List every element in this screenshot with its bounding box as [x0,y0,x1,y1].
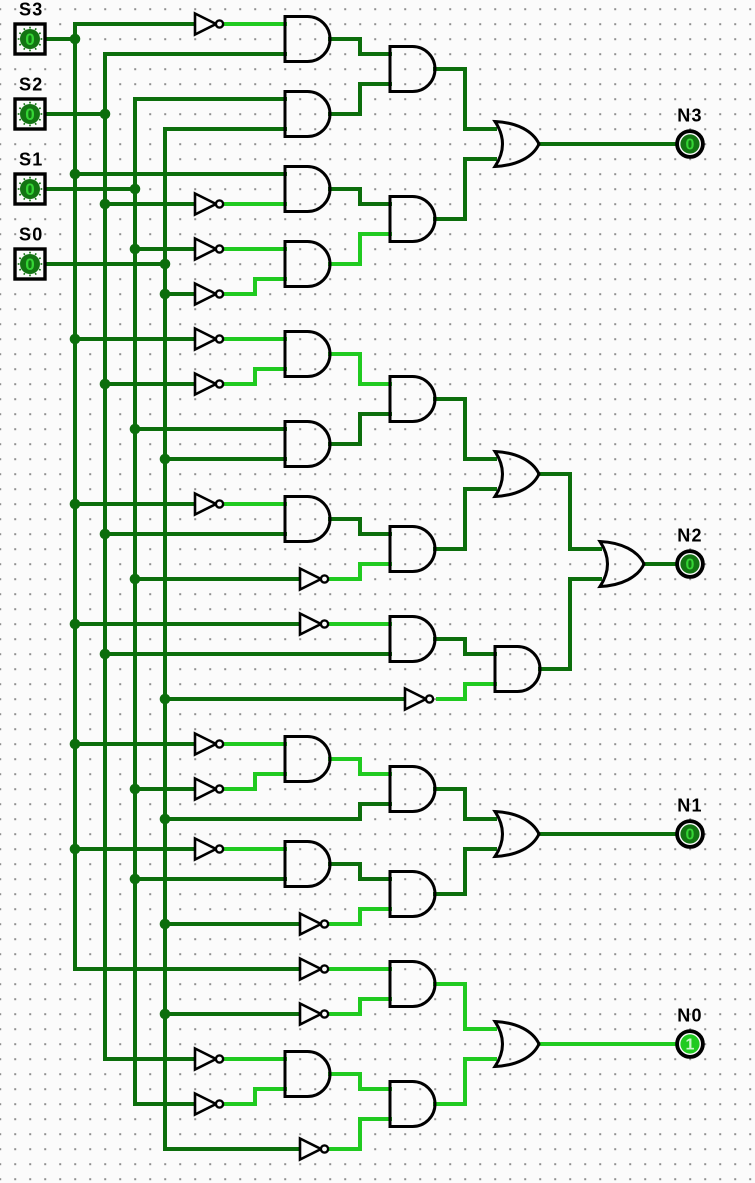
output pin N0 [677,1031,703,1057]
junction S0-r1014 [160,1009,171,1020]
svg-text:N2: N2 [677,526,702,546]
junction S0-pin [160,259,171,270]
wire O3 out to N2 [644,562,676,566]
wire A6 out [330,234,390,264]
junction S0-r294 [160,289,171,300]
AND gate A9 [285,422,330,467]
wire A8 out [435,399,495,459]
wire S3 branch row624 [75,622,300,626]
wire U9 out [330,622,390,626]
NOT gate U4 [195,284,223,305]
AND gate A7 [285,332,330,377]
AND gate A3 [390,47,435,92]
wire U5 out [225,337,285,341]
wire S1 branch row429 [135,427,285,431]
junction S0-r459 [160,454,171,465]
wire U14 out [330,909,390,924]
wire S0 branch row924 [165,922,300,926]
wire U7 out [225,502,285,506]
AND gate A2 [285,92,330,137]
wire S1 branch row99 [135,97,285,101]
wire A5 out [435,159,495,219]
wire A9 out [330,414,390,444]
wire U12 out [225,774,285,789]
NOT gate U7 [195,494,223,515]
wire S0 branch row1149 [165,1147,300,1151]
svg-text:S3: S3 [19,0,43,20]
wire U11 out [225,742,285,746]
OR gate O4 [495,812,539,857]
wire S0 branch row699 [165,697,405,701]
wire U8 out [330,564,390,579]
wire S1 branch row579 [135,577,300,581]
AND gate A17 [390,872,435,917]
svg-text:1: 1 [686,1037,695,1054]
wire S0 branch row1014 [165,1012,300,1016]
wire A3 out [435,69,495,129]
wire O1 out to N3 [539,142,676,146]
junction S3-r744 [70,739,81,750]
input pin S1 [15,174,45,204]
AND gate A1 [285,17,330,62]
wire U4 out [225,279,285,294]
AND gate A10 [285,497,330,542]
wire U2 out [225,202,285,206]
junction S0-r819 [160,814,171,825]
junction S2-r534 [100,529,111,540]
wire S2 branch row654 [105,652,390,656]
wire U17 out [330,1119,390,1149]
wire S2 branch row534 [105,532,285,536]
NOT gate U19 [300,1004,328,1025]
NOT gate U17 [300,1139,328,1160]
wire S1 branch row249 [135,247,195,251]
junction S2-pin [100,109,111,120]
junction S0-r924 [160,919,171,930]
NOT gate U14 [300,914,328,935]
wire S2 branch row1059 [105,1057,195,1061]
input pin S2 [15,99,45,129]
input pin S0 [15,249,45,279]
wire S1 branch row789 [135,787,195,791]
wire S3 pin to bus [45,37,75,41]
wire S1 branch row879 [135,877,285,881]
wire A14 out [330,759,390,774]
wire S2 branch row54 [105,52,285,56]
wire S3 branch row24 [75,22,195,26]
junction S3-r624 [70,619,81,630]
AND gate A20 [390,1082,435,1127]
wire S0 branch row294 [165,292,195,296]
svg-text:0: 0 [25,255,34,274]
wire S0 pin to bus [45,262,165,266]
svg-text:S0: S0 [19,225,43,245]
junction S1-r249 [130,244,141,255]
wire U16 out [225,1089,285,1104]
wire U3 out [225,247,285,251]
OR gate O2 [495,452,539,497]
wire A11 out [435,489,495,549]
output pin N3 [677,131,703,157]
junction S2-r654 [100,649,111,660]
wire A1 out [330,39,390,54]
OR gate O3 [600,542,644,587]
svg-text:0: 0 [686,557,695,574]
wire A12 out [435,639,495,654]
wire S2 branch row384 [105,382,195,386]
AND gate A13 [495,647,540,692]
junction S1-r789 [130,784,141,795]
NOT gate U3 [195,239,223,260]
wire U15 out [225,1057,285,1061]
NOT gate U5 [195,329,223,350]
wire S2 pin to bus [45,112,105,116]
wire A20 out [435,1059,495,1104]
NOT gate U1 [195,14,223,35]
wire O4 out to N1 [539,832,676,836]
AND gate A18 [390,962,435,1007]
svg-text:0: 0 [25,30,34,49]
svg-text:S1: S1 [19,150,43,170]
AND gate A5 [390,197,435,242]
junction S2-r384 [100,379,111,390]
svg-text:0: 0 [25,105,34,124]
junction S3-pin [70,34,81,45]
wire U18 out [330,967,390,971]
NOT gate U9 [300,614,328,635]
svg-text:N0: N0 [677,1006,702,1026]
wire U6 out [225,369,285,384]
junction S1-r879 [130,874,141,885]
AND gate A14 [285,737,330,782]
NOT gate U8 [300,569,328,590]
junction S1-r579 [130,574,141,585]
NOT gate U10 [405,689,433,710]
wire A2 out [330,84,390,114]
wire O5 out to N0 [539,1042,676,1046]
junction S3-r174 [70,169,81,180]
svg-text:0: 0 [686,137,695,154]
wire S3 branch row339 [75,337,195,341]
wire S3 branch row744 [75,742,195,746]
junction S1-pin [130,184,141,195]
wire S1 branch row1104 [135,1102,195,1106]
output pin N2 [677,551,703,577]
wire U13 out [225,847,285,851]
wire S3 branch row849 [75,847,195,851]
wire A19 out [330,1074,390,1089]
NOT gate U13 [195,839,223,860]
junction S3-r504 [70,499,81,510]
AND gate A4 [285,167,330,212]
AND gate A11 [390,527,435,572]
wire A17 out [435,849,495,894]
wire S1 pin to bus [45,187,135,191]
wire A15 out [330,864,390,879]
wire U1 out [225,22,285,26]
AND gate A19 [285,1052,330,1097]
wire S3 branch row174 [75,172,285,176]
wire bus S3 vertical [73,24,77,969]
wire bus S2 vertical [103,54,107,1059]
wire O2 out [539,474,600,549]
junction S2-r204 [100,199,111,210]
output pin N1 [677,821,703,847]
junction S0-r699 [160,694,171,705]
svg-text:0: 0 [686,827,695,844]
wire S0 branch row819 [165,804,390,819]
wire A10 out [330,519,390,534]
NOT gate U15 [195,1049,223,1070]
junction S1-r429 [130,424,141,435]
junction S3-r849 [70,844,81,855]
AND gate A16 [390,767,435,812]
wire A18 out [435,984,495,1029]
wire S3 branch row504 [75,502,195,506]
OR gate O1 [495,122,539,167]
OR gate O5 [495,1022,539,1067]
wire A7 out [330,354,390,384]
wire U10 out [438,684,495,699]
AND gate A8 [390,377,435,422]
wire S0 branch row459 [165,457,285,461]
NOT gate U11 [195,734,223,755]
svg-text:S2: S2 [19,75,43,95]
wire S3 branch row969 [75,967,300,971]
wire bus S1 vertical [133,99,137,1104]
AND gate A12 [390,617,435,662]
NOT gate U2 [195,194,223,215]
wire S0 branch row129 [165,127,285,131]
NOT gate U6 [195,374,223,395]
wire A13 out [540,579,600,669]
wire U19 out [330,999,390,1014]
wire S2 branch row204 [105,202,195,206]
svg-text:N3: N3 [677,106,702,126]
svg-text:0: 0 [25,180,34,199]
AND gate A6 [285,242,330,287]
input pin S3 [15,24,45,54]
NOT gate U18 [300,959,328,980]
junction S3-r339 [70,334,81,345]
wire A16 out [435,789,495,819]
wire bus S0 vertical [163,129,167,1149]
NOT gate U16 [195,1094,223,1115]
NOT gate U12 [195,779,223,800]
svg-text:N1: N1 [677,796,702,816]
wire A4 out [330,189,390,204]
AND gate A15 [285,842,330,887]
